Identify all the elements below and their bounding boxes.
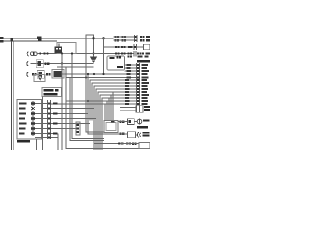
wire bundle riser 4 bbox=[96, 89, 137, 150]
wire row47 to box bbox=[137, 46, 144, 48]
node J5 bbox=[93, 73, 95, 75]
pins CS bbox=[48, 103, 50, 139]
wire vertical x70 long bbox=[70, 78, 104, 141]
text row108 bbox=[144, 106, 150, 111]
symbol V1 bbox=[38, 76, 41, 80]
pin D1 top bbox=[58, 44, 60, 47]
wire bundle riser 7 bbox=[102, 98, 137, 150]
glyphs right of bar bbox=[140, 36, 150, 41]
connector bar row53 bbox=[134, 51, 136, 57]
text TPS rows bbox=[44, 89, 59, 96]
wire vertical x66 long bbox=[66, 67, 148, 149]
wire row 47 bbox=[104, 46, 134, 48]
wire branch into box 1 bbox=[112, 92, 114, 121]
splice bus junction bbox=[11, 38, 14, 42]
text ECU right labels bbox=[142, 64, 150, 105]
wire left bus pair bbox=[11, 41, 13, 150]
glyphs row53 right bbox=[137, 52, 150, 54]
glyphs row 47 bbox=[115, 46, 133, 48]
connector row3 left bbox=[27, 70, 64, 79]
glyphs row 53 bbox=[115, 52, 132, 54]
connector row2 left bbox=[27, 60, 50, 68]
wire row 137 bbox=[51, 137, 58, 139]
fuse box F1 outer bbox=[57, 43, 76, 54]
text knock caption bbox=[143, 132, 150, 136]
wires row108 bbox=[120, 108, 136, 111]
wire branch into box 4 bbox=[106, 101, 108, 121]
node J6 bbox=[102, 73, 104, 75]
node J4 bbox=[61, 62, 63, 64]
narrow connector NB bbox=[76, 122, 80, 135]
node J9 bbox=[71, 52, 73, 54]
symbol o2 sensor bbox=[137, 119, 142, 125]
bottom row glyphs bbox=[119, 142, 137, 145]
node J1 bbox=[92, 37, 94, 39]
connector block row108 bbox=[136, 106, 143, 112]
pins NB bbox=[77, 124, 79, 133]
ground G1 bbox=[91, 57, 97, 59]
pins bar top bbox=[135, 36, 137, 41]
connector bar top bbox=[134, 35, 136, 42]
box row47 end bbox=[144, 44, 151, 49]
node Jg bbox=[93, 53, 95, 55]
label box TPS bbox=[42, 88, 62, 97]
wire o2 row bbox=[118, 121, 137, 123]
wires top right pair bbox=[114, 37, 135, 40]
wire row 118 bbox=[51, 118, 96, 120]
node J8a bbox=[87, 73, 89, 75]
text ECU left wire colors bbox=[125, 64, 131, 105]
wire row 104 bbox=[51, 103, 137, 105]
node Jb1 bbox=[118, 142, 120, 144]
wire vertical x62 bbox=[61, 54, 63, 64]
sensor glyphs JB rows bbox=[31, 102, 34, 135]
text JB caption bbox=[17, 140, 30, 142]
box bottom right BR bbox=[139, 143, 150, 149]
node J7 bbox=[85, 76, 87, 78]
relay box RB1 rounded bbox=[107, 56, 125, 70]
wire row 101 bbox=[66, 100, 137, 102]
wire row 74 main bbox=[59, 73, 137, 75]
node J8 bbox=[87, 100, 89, 102]
wire vertical x42 bbox=[42, 97, 44, 151]
wire row 108 bbox=[51, 108, 94, 110]
wire bundle riser 3 bbox=[94, 86, 137, 150]
wire vertical x88 bbox=[88, 74, 104, 134]
wire vertical x36 bbox=[36, 139, 38, 150]
bottom mid box BB inner bbox=[106, 123, 116, 131]
wire row 133 bbox=[51, 133, 55, 135]
node J2 bbox=[102, 37, 104, 39]
text RB1 label bbox=[110, 56, 124, 68]
wire branch into box 2 bbox=[110, 95, 112, 121]
connector bar row47 bbox=[134, 44, 136, 50]
pins ECU bbox=[137, 64, 139, 105]
bottom mid box BB bbox=[104, 121, 118, 133]
ECU connector strip bbox=[137, 63, 140, 113]
wire branch vertical x103 bbox=[103, 38, 105, 74]
text wire colors mid bbox=[53, 103, 58, 135]
check connector box V1 bbox=[34, 75, 45, 82]
wire branch into box 5 bbox=[104, 104, 106, 121]
wire bundle riser 6 bbox=[100, 95, 137, 150]
wire row 67 bbox=[57, 66, 94, 68]
knock sensor row bbox=[120, 133, 125, 136]
wire JB row stubs bbox=[35, 104, 48, 138]
wire knock row bbox=[104, 134, 138, 135]
wire vertical x72 long bbox=[72, 54, 104, 139]
wire row 113 bbox=[51, 113, 88, 115]
text JB row labels bbox=[19, 103, 27, 135]
wire drop x58 bbox=[57, 134, 59, 151]
box knock bbox=[128, 132, 136, 138]
text BB mark bbox=[111, 121, 114, 123]
wire riser to ground branch bbox=[86, 35, 94, 57]
mark o2 box bbox=[129, 120, 132, 123]
glyphs row56 bbox=[128, 55, 149, 57]
pin bar row47 bbox=[134, 46, 136, 48]
connector C1 (left edge battery feed) bbox=[0, 37, 4, 43]
wire row 128 bbox=[51, 128, 76, 130]
splice S1 fusible link bbox=[37, 36, 41, 41]
component D1 dark module bbox=[55, 47, 63, 54]
wire top feed A bbox=[4, 37, 114, 39]
wire branch into box 3 bbox=[108, 98, 110, 121]
wire rows 65-71 right bbox=[125, 65, 137, 71]
connector strip CS left bbox=[48, 100, 51, 139]
wire bundle riser 1 bbox=[90, 80, 137, 121]
text o2 right bbox=[143, 119, 150, 121]
box o2 bbox=[128, 119, 135, 125]
connector row1 left bbox=[27, 52, 48, 56]
wire vertical x86 lower bbox=[86, 54, 104, 132]
top right connector rows bbox=[115, 36, 126, 41]
wire row 53 bbox=[37, 53, 134, 55]
wire row 77 bbox=[66, 77, 137, 79]
wire vertical x62 long bbox=[61, 64, 63, 151]
wire top feed B bbox=[4, 40, 57, 42]
o2 sensor row bbox=[120, 120, 125, 123]
text o2 caption bbox=[137, 126, 148, 128]
wire bundle riser 2 bbox=[92, 83, 137, 121]
wire bottom row 142 ext bbox=[94, 143, 139, 145]
wire row 123 bbox=[51, 123, 90, 125]
node J3 bbox=[61, 52, 63, 54]
junction block JB outline bbox=[17, 100, 42, 140]
text ECU title bbox=[137, 60, 150, 62]
wire row 63 bbox=[31, 63, 94, 65]
symbol knock arcs bbox=[137, 132, 140, 137]
wire bundle riser 5 bbox=[98, 92, 137, 150]
